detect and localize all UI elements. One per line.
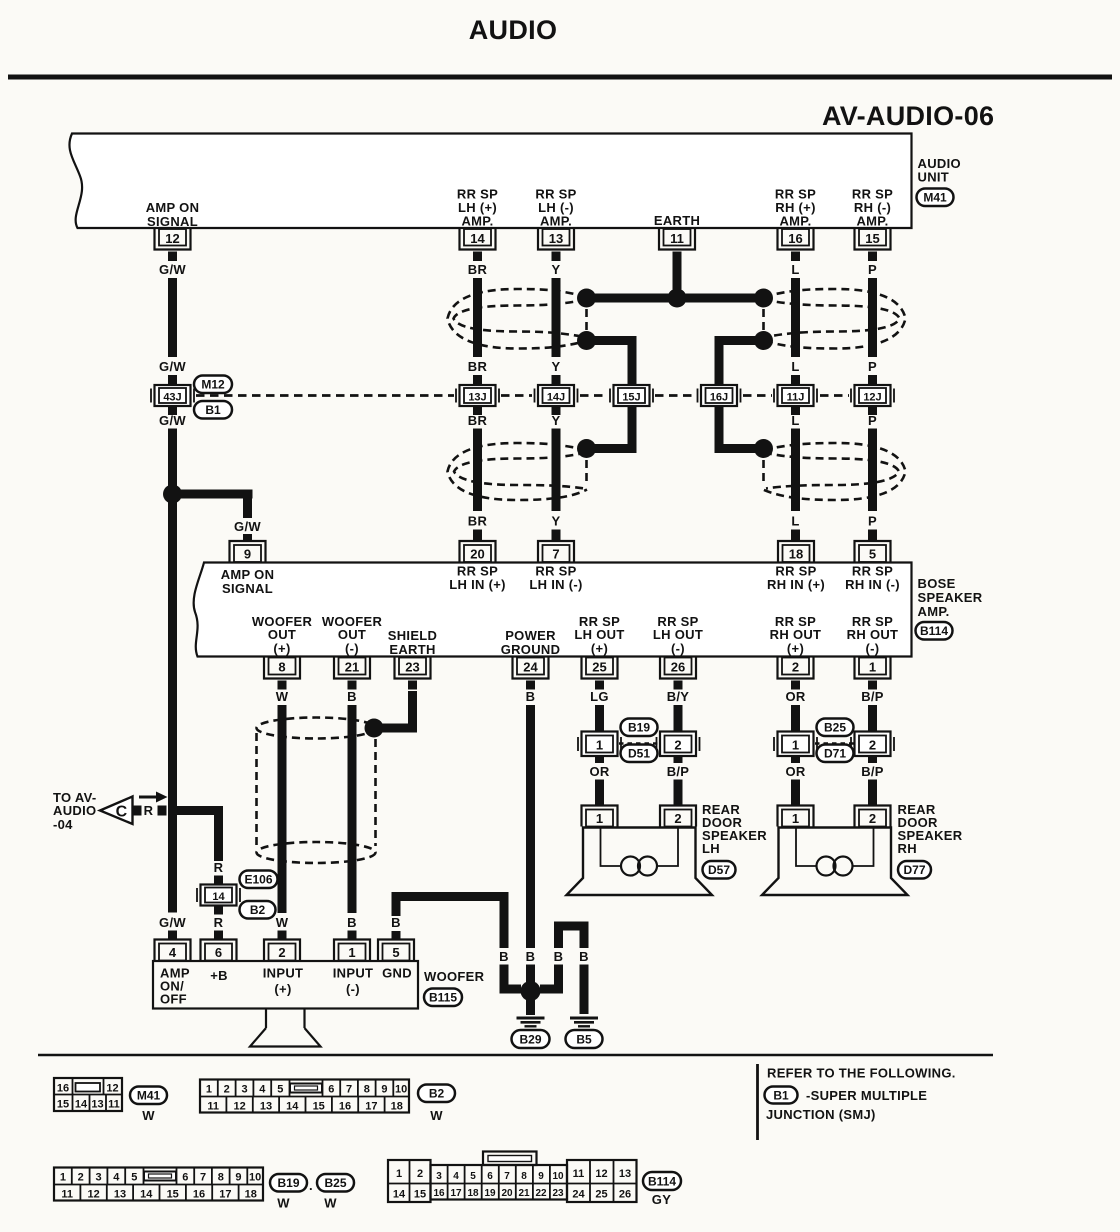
wire OR [595, 780, 604, 806]
connector B114 oval [916, 622, 953, 640]
wire branch vertical [243, 494, 252, 518]
svg-text:LH OUT: LH OUT [574, 627, 624, 642]
wire B power ground long [526, 705, 535, 948]
junction 16J [698, 385, 741, 406]
svg-text:16: 16 [788, 231, 802, 246]
junction dot G/W branch [163, 485, 182, 504]
connector B25 pin 2 [851, 732, 894, 757]
svg-text:EARTH: EARTH [389, 642, 435, 657]
svg-text:14: 14 [470, 231, 485, 246]
svg-text:(+): (+) [274, 982, 291, 997]
bose speaker amp B114 box [194, 563, 912, 658]
svg-text:26: 26 [671, 660, 685, 675]
svg-text:4: 4 [453, 1171, 459, 1182]
svg-text:7: 7 [552, 547, 559, 562]
connector B2 face oval [418, 1085, 455, 1103]
svg-text:B: B [526, 949, 536, 964]
connector B19 pin 2 [657, 732, 700, 757]
svg-text:9: 9 [381, 1084, 387, 1096]
svg-text:W: W [277, 1196, 290, 1211]
audio unit name label [918, 156, 961, 185]
wire BR [473, 278, 482, 357]
pin 13 audio unit [538, 229, 574, 250]
pin 16 audio unit [778, 229, 814, 250]
wire B long [348, 705, 357, 913]
pin 26 bose amp bottom [660, 658, 696, 679]
connector B25 face oval [317, 1174, 354, 1192]
svg-text:RH: RH [898, 841, 917, 856]
svg-text:14: 14 [140, 1189, 153, 1201]
svg-text:21: 21 [518, 1188, 530, 1199]
svg-text:AMP.: AMP. [461, 214, 493, 229]
svg-text:BR: BR [468, 514, 488, 529]
shield upper right inner [764, 300, 900, 338]
svg-text:W: W [276, 689, 289, 704]
connector face M41 [54, 1078, 122, 1111]
svg-text:2: 2 [278, 945, 285, 960]
wire OR lower [791, 780, 800, 806]
wire stub [868, 406, 877, 415]
svg-text:B19: B19 [628, 721, 650, 735]
off-page arrow C [100, 792, 168, 825]
rear door speaker RH label [898, 802, 963, 856]
svg-text:43J: 43J [163, 392, 181, 404]
svg-text:(-): (-) [346, 982, 360, 997]
shield lower right outer [763, 443, 906, 500]
shield cylinder right side [374, 739, 377, 846]
svg-text:1: 1 [869, 660, 876, 675]
wire L lower [791, 429, 800, 512]
connector D51 oval [621, 745, 658, 763]
svg-text:INPUT: INPUT [263, 966, 304, 981]
svg-text:B: B [391, 915, 401, 930]
wire stub below [595, 756, 604, 763]
wire branch to pin 9 horizontal [168, 490, 253, 499]
svg-text:3: 3 [95, 1172, 101, 1184]
wire L stub [791, 252, 800, 262]
wire stub below dot [526, 999, 535, 1015]
top rule [8, 75, 1112, 80]
svg-text:18: 18 [391, 1101, 403, 1113]
svg-text:5: 5 [131, 1172, 137, 1184]
shield drain wire left C [587, 341, 633, 449]
svg-text:WOOFER: WOOFER [424, 969, 485, 984]
wire B gnd pin5 stub [392, 931, 401, 940]
svg-text:OUT: OUT [268, 627, 296, 642]
svg-text:W: W [276, 915, 289, 930]
svg-text:AMP.: AMP. [918, 604, 950, 619]
svg-text:12: 12 [87, 1189, 99, 1201]
svg-text:Y: Y [552, 359, 561, 374]
connector face B2 [200, 1080, 409, 1113]
svg-text:B114: B114 [920, 624, 948, 638]
svg-text:15J: 15J [622, 392, 640, 404]
svg-text:RH OUT: RH OUT [770, 627, 822, 642]
svg-text:OR: OR [785, 689, 805, 704]
wire stub below [791, 756, 800, 763]
wire Y lower [552, 429, 561, 512]
rear door speaker LH pin 2 [660, 806, 696, 827]
svg-text:B29: B29 [519, 1033, 541, 1047]
svg-text:SHIELD: SHIELD [388, 628, 437, 643]
connector B114 face oval [643, 1172, 681, 1190]
svg-text:7: 7 [504, 1171, 510, 1182]
svg-text:9: 9 [244, 547, 251, 562]
svg-text:B1: B1 [773, 1089, 789, 1103]
wire stub above pin 1 [348, 931, 357, 940]
svg-text:RH OUT: RH OUT [847, 627, 899, 642]
pin 2 bose amp bottom [778, 658, 814, 679]
junction 14J [535, 385, 578, 406]
wire left leg to dot [540, 965, 559, 990]
svg-text:11: 11 [61, 1189, 73, 1201]
wire R dash 2 [158, 806, 167, 816]
connector B2 oval [240, 901, 276, 919]
wire stub above pin 6 [214, 931, 223, 940]
svg-text:12: 12 [106, 1083, 118, 1095]
svg-text:INPUT: INPUT [333, 966, 374, 981]
wire stub [868, 530, 877, 541]
wire G/W down [168, 278, 177, 357]
svg-text:17: 17 [219, 1189, 231, 1201]
junction 43J [151, 385, 194, 406]
svg-text:G/W: G/W [159, 413, 186, 428]
svg-text:BR: BR [468, 359, 488, 374]
pin 14 audio unit [460, 229, 496, 250]
svg-text:D57: D57 [708, 863, 730, 877]
shield upper left link [585, 309, 588, 330]
rear door speaker RH body [762, 828, 908, 896]
wire P lower [868, 429, 877, 512]
wire R dash 1 [133, 806, 142, 816]
svg-text:L: L [791, 262, 799, 277]
svg-text:20: 20 [470, 547, 484, 562]
pin 21 bose amp bottom [334, 658, 370, 679]
svg-text:6: 6 [328, 1084, 334, 1096]
svg-text:25: 25 [592, 660, 606, 675]
svg-text:11: 11 [670, 231, 684, 246]
svg-text:6: 6 [487, 1171, 493, 1182]
ground symbol B5 [570, 1018, 598, 1026]
svg-text:11J: 11J [787, 392, 805, 404]
svg-text:LH: LH [702, 841, 720, 856]
svg-text:M12: M12 [201, 378, 225, 392]
shield drain dot left [577, 439, 596, 458]
svg-text:9: 9 [235, 1172, 241, 1184]
wire B/Y [674, 705, 683, 732]
svg-text:2: 2 [417, 1168, 423, 1180]
svg-text:P: P [868, 413, 877, 428]
svg-text:2: 2 [674, 811, 681, 826]
svg-text:M41: M41 [923, 191, 947, 205]
svg-text:14J: 14J [547, 392, 565, 404]
svg-text:4: 4 [169, 945, 177, 960]
svg-text:AMP.: AMP. [540, 214, 572, 229]
svg-text:(-): (-) [866, 641, 880, 656]
junction dot left [577, 289, 596, 308]
svg-text:G/W: G/W [159, 262, 186, 277]
connector B19 oval [621, 719, 658, 737]
connector D77 oval [898, 861, 931, 879]
svg-text:R: R [144, 803, 154, 818]
svg-text:BOSE: BOSE [918, 576, 956, 591]
svg-text:10: 10 [395, 1084, 407, 1096]
connector D71 oval [817, 745, 854, 763]
svg-text:18: 18 [245, 1189, 257, 1201]
svg-text:C: C [116, 804, 128, 821]
svg-text:10: 10 [249, 1172, 261, 1184]
svg-text:11: 11 [108, 1099, 120, 1111]
wire stub above pin 4 [168, 931, 177, 940]
connector E106 oval [240, 871, 278, 889]
connector M12 oval [194, 376, 232, 394]
pin 5 bose amp [855, 541, 891, 562]
wire OR stub rh [791, 681, 800, 690]
svg-text:13: 13 [260, 1101, 272, 1113]
refer note text [766, 1066, 956, 1123]
shield lower left inner [454, 453, 586, 489]
wire LG [595, 705, 604, 732]
wire B power ground stub [526, 681, 535, 690]
junction dot earth [668, 289, 687, 308]
shield upper right link [762, 309, 765, 330]
svg-text:GND: GND [382, 966, 412, 981]
svg-text:12: 12 [165, 231, 179, 246]
svg-text:B5: B5 [576, 1033, 592, 1047]
svg-text:W: W [324, 1196, 337, 1211]
pin 9 bose amp [230, 541, 266, 562]
svg-text:B: B [554, 949, 564, 964]
svg-text:B/Y: B/Y [667, 689, 690, 704]
svg-text:L: L [791, 413, 799, 428]
svg-text:18: 18 [789, 547, 803, 562]
pin 4 woofer [155, 940, 191, 961]
svg-text:21: 21 [345, 660, 359, 675]
svg-text:B1: B1 [205, 403, 221, 417]
svg-text:13: 13 [114, 1189, 126, 1201]
rear door speaker LH label [702, 802, 767, 856]
svg-text:13: 13 [91, 1099, 103, 1111]
wire B/P stub rh [868, 681, 877, 690]
pin 11 audio unit [659, 229, 695, 250]
svg-text:R: R [214, 860, 224, 875]
wire shield earth stub [408, 681, 417, 690]
svg-text:LG: LG [590, 689, 609, 704]
pin 8 bose amp bottom [264, 658, 300, 679]
svg-text:16: 16 [339, 1101, 351, 1113]
svg-text:B/P: B/P [667, 764, 690, 779]
svg-text:W: W [430, 1108, 443, 1123]
svg-text:OFF: OFF [160, 992, 187, 1007]
svg-text:B25: B25 [824, 721, 846, 735]
connector interface dashes B19/D51 [619, 742, 658, 745]
svg-text:26: 26 [619, 1189, 631, 1201]
ground B5 oval [566, 1030, 603, 1048]
svg-text:13: 13 [549, 231, 563, 246]
svg-text:2: 2 [792, 660, 799, 675]
svg-text:(+): (+) [273, 641, 290, 656]
svg-text:1: 1 [206, 1084, 212, 1096]
pin 18 bose amp [778, 541, 814, 562]
pin 25 bose amp bottom [582, 658, 618, 679]
svg-text:2: 2 [869, 738, 876, 753]
svg-text:P: P [868, 262, 877, 277]
wire bridge between grounds [559, 926, 585, 948]
smj dashed line [196, 394, 849, 397]
svg-text:(-): (-) [671, 641, 685, 656]
svg-text:12J: 12J [863, 392, 881, 404]
svg-text:11: 11 [573, 1168, 585, 1180]
svg-text:3: 3 [241, 1084, 247, 1096]
connector interface dashes B25/D71 [815, 742, 854, 745]
connector face B114 [388, 1152, 637, 1203]
svg-text:AMP ON: AMP ON [221, 567, 275, 582]
pin 24 bose amp bottom [513, 658, 549, 679]
wire stub [473, 375, 482, 385]
wire stub [791, 375, 800, 385]
svg-text:-SUPER MULTIPLE: -SUPER MULTIPLE [806, 1088, 927, 1103]
wire EARTH down [673, 252, 682, 290]
wire stub above 43J [168, 375, 177, 385]
wire stub below [868, 756, 877, 763]
svg-text:16: 16 [57, 1083, 69, 1095]
connector M41 oval [917, 189, 954, 207]
svg-text:AMP ON: AMP ON [146, 200, 200, 215]
ground junction dot B29 [521, 981, 541, 1001]
wire OR rh [791, 705, 800, 732]
svg-text:OR: OR [589, 764, 609, 779]
svg-text:4: 4 [259, 1084, 266, 1096]
svg-text:B19: B19 [277, 1176, 299, 1190]
svg-text:RH IN (+): RH IN (+) [767, 577, 825, 592]
wire down to elbow [504, 965, 521, 990]
pin 23 bose amp bottom [395, 658, 431, 679]
pin 6 woofer [201, 940, 237, 961]
svg-text:14: 14 [212, 891, 225, 903]
bottom separator line [38, 1054, 993, 1057]
svg-text:-04: -04 [53, 817, 73, 832]
svg-text:13J: 13J [468, 392, 486, 404]
svg-text:8: 8 [218, 1172, 224, 1184]
svg-text:B2: B2 [250, 903, 266, 917]
wire LG stub [595, 681, 604, 690]
note B1 oval [765, 1087, 798, 1104]
svg-text:23: 23 [552, 1188, 564, 1199]
wire stub above pin 2 [278, 931, 287, 940]
pin 2 woofer [264, 940, 300, 961]
svg-text:16: 16 [193, 1189, 205, 1201]
svg-text:12: 12 [595, 1168, 607, 1180]
connector B1 oval [194, 401, 232, 419]
svg-text:8: 8 [521, 1171, 527, 1182]
junction 14 E106/B2 [197, 885, 240, 906]
svg-text:1: 1 [60, 1172, 66, 1184]
svg-text:D77: D77 [903, 863, 925, 877]
wire P stub [868, 252, 877, 262]
svg-text:B: B [526, 689, 536, 704]
svg-text:B114: B114 [648, 1175, 676, 1189]
earth bus wire [587, 294, 764, 303]
svg-text:2: 2 [869, 811, 876, 826]
svg-text:25: 25 [595, 1189, 607, 1201]
svg-text:AMP.: AMP. [856, 214, 888, 229]
svg-text:RH IN (-): RH IN (-) [845, 577, 900, 592]
svg-text:6: 6 [182, 1172, 188, 1184]
svg-text:GROUND: GROUND [501, 642, 561, 657]
svg-text:B/P: B/P [861, 764, 884, 779]
svg-text:7: 7 [346, 1084, 352, 1096]
woofer speaker symbol [250, 1009, 321, 1047]
svg-text:5: 5 [470, 1171, 476, 1182]
svg-text:REFER TO THE FOLLOWING.: REFER TO THE FOLLOWING. [767, 1066, 956, 1081]
svg-text:AUDIO: AUDIO [53, 803, 96, 818]
svg-text:17: 17 [450, 1188, 462, 1199]
svg-text:5: 5 [869, 547, 876, 562]
connector face B19/B25 [54, 1168, 263, 1201]
wire stub [868, 375, 877, 385]
shield drain wire right C [719, 341, 764, 449]
svg-text:7: 7 [200, 1172, 206, 1184]
wire stub [791, 530, 800, 541]
svg-text:B: B [347, 915, 357, 930]
pin 1 bose amp bottom [855, 658, 891, 679]
wire G/W pin12 stub [168, 252, 177, 262]
svg-text:B: B [347, 689, 357, 704]
svg-text:13: 13 [619, 1168, 631, 1180]
shield cylinder bottom ellipse [257, 842, 376, 863]
svg-text:23: 23 [405, 660, 419, 675]
svg-text:BR: BR [468, 262, 488, 277]
ground B29 oval [512, 1030, 550, 1048]
wire stub below junction [214, 906, 223, 915]
svg-text:AMP.: AMP. [779, 214, 811, 229]
svg-text:(-): (-) [345, 641, 359, 656]
svg-text:R: R [214, 915, 224, 930]
svg-text:14: 14 [286, 1101, 299, 1113]
svg-text:1: 1 [396, 1168, 402, 1180]
svg-text:EARTH: EARTH [654, 213, 700, 228]
svg-text:M41: M41 [137, 1089, 161, 1103]
svg-text:SIGNAL: SIGNAL [147, 214, 198, 229]
svg-text:B: B [579, 949, 589, 964]
ground symbol B29 [517, 1018, 545, 1026]
svg-text:15: 15 [57, 1099, 69, 1111]
svg-text:3: 3 [436, 1171, 442, 1182]
wire stub [552, 530, 561, 541]
wire G/W long down to woofer amp [168, 429, 177, 913]
svg-text:P: P [868, 359, 877, 374]
wire stub [552, 406, 561, 415]
shield lower left outer [448, 443, 588, 500]
wire stub [473, 530, 482, 541]
svg-text:B2: B2 [429, 1087, 445, 1101]
svg-text:8: 8 [364, 1084, 370, 1096]
svg-text:17: 17 [365, 1101, 377, 1113]
wire stub below [674, 756, 683, 763]
wire stub [791, 406, 800, 415]
wire stub below 43J [168, 406, 177, 415]
shield lower left link [585, 460, 588, 482]
svg-text:14: 14 [75, 1099, 88, 1111]
svg-text:5: 5 [392, 945, 399, 960]
pin 15 audio unit [855, 229, 891, 250]
wire B stub [348, 681, 357, 690]
svg-text:+B: +B [210, 968, 228, 983]
svg-text:11: 11 [207, 1101, 219, 1113]
junction 15J [610, 385, 653, 406]
svg-text:2: 2 [224, 1084, 230, 1096]
connector B25 oval [817, 719, 854, 737]
